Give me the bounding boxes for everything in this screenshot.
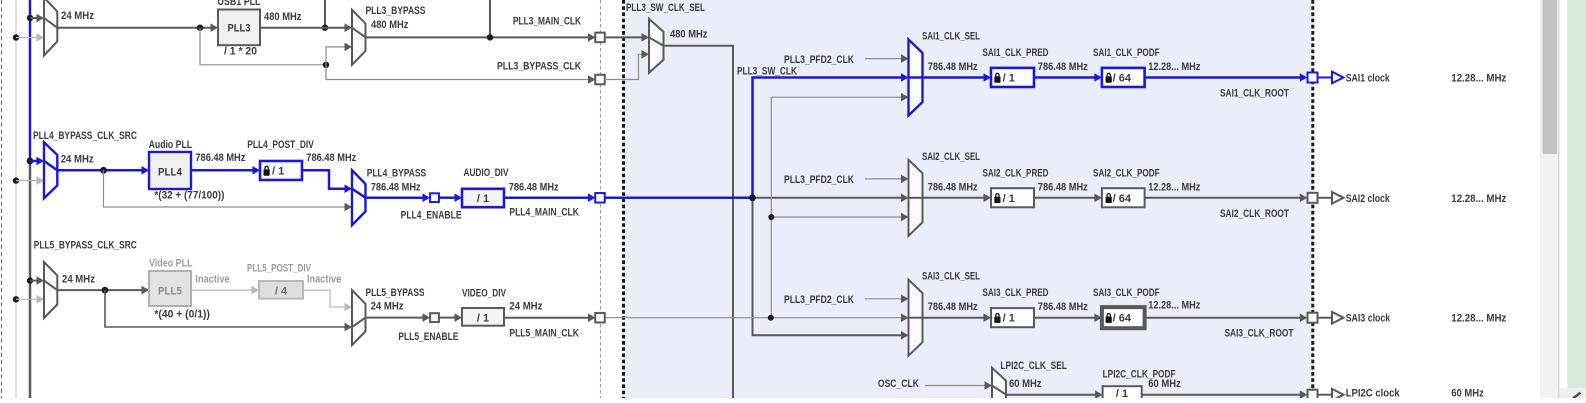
node inactive trunk branch row2: [13, 177, 19, 183]
svg-text:VIDEO_DIV: VIDEO_DIV: [462, 288, 506, 300]
svg-text:/ 1: / 1: [1003, 193, 1015, 205]
svg-text:PLL4_ENABLE: PLL4_ENABLE: [401, 210, 462, 222]
output arrow LPI2C clock: [1332, 389, 1344, 401]
divider PLL4_POST_DIV: [260, 161, 302, 180]
mux SAI2_CLK_SEL: [909, 160, 923, 236]
svg-text:12.28... MHz: 12.28... MHz: [1451, 193, 1506, 205]
svg-text:24 MHz: 24 MHz: [61, 154, 94, 166]
svg-text:12.28... MHz: 12.28... MHz: [1451, 73, 1506, 85]
svg-text:786.48 MHz: 786.48 MHz: [1038, 301, 1088, 313]
wire PLL3_BYPASS_CLK to port: [326, 65, 588, 80]
mux LPI2C_CLK_SEL: [992, 368, 1006, 403]
wire PRED to PODF SAI3: [1034, 317, 1095, 319]
mux PLL4_BYPASS: [352, 170, 366, 225]
node PLL5 input junction: [102, 287, 109, 294]
port PLL4_MAIN_CLK: [595, 193, 605, 203]
wire inactive to PLL4 src mux: [16, 180, 37, 182]
wire PLL4_BYPASS out: [366, 196, 424, 199]
svg-text:/ 1: / 1: [1003, 313, 1015, 325]
svg-text:LPI2C_CLK_SEL: LPI2C_CLK_SEL: [1000, 360, 1067, 372]
wire PLL3_PFD2_CLK to SAI1 mux: [865, 58, 901, 60]
wire PLL3 vertical to top loads: [324, 0, 326, 28]
svg-text:PLL5_POST_DIV: PLL5_POST_DIV: [247, 263, 311, 275]
wire PODF to root port SAI3: [1145, 317, 1300, 319]
wire LPI2C mux to PODF: [1006, 394, 1095, 396]
divider PLL5_POST_DIV inactive: [259, 281, 303, 299]
mux PLL5_BYPASS: [352, 290, 366, 345]
wire PODF to root port SAI2: [1145, 197, 1300, 199]
node inactive trunk branch row3: [13, 296, 19, 302]
svg-text:/ 1: / 1: [1003, 73, 1015, 85]
wire SAI3 mux to PRED: [923, 317, 985, 319]
port PLL5_ENABLE: [430, 313, 439, 322]
output arrow SAI2 clock: [1332, 192, 1344, 204]
wire SAI2 mux to PRED: [923, 197, 985, 199]
divider VIDEO_DIV: [462, 308, 504, 326]
wire PLL4 to POST_DIV: [191, 169, 253, 172]
main 24MHz trunk (blue top): [29, 0, 32, 161]
svg-text:PLL3: PLL3: [228, 23, 251, 35]
wire PLL3_MAIN_CLK tap to top: [489, 0, 491, 37]
green minimap panel: [1567, 0, 1586, 388]
svg-text:PLL3_PFD2_CLK: PLL3_PFD2_CLK: [784, 54, 854, 66]
svg-text:PLL5: PLL5: [158, 286, 182, 298]
svg-text:SAI1_CLK_ROOT: SAI1_CLK_ROOT: [1220, 88, 1289, 100]
wire POST_DIV to PLL5_BYPASS mux inactive: [303, 290, 345, 307]
node 24MHz trunk to PLL3 src: [27, 15, 33, 21]
svg-text:SAI2_CLK_SEL: SAI2_CLK_SEL: [922, 151, 980, 163]
output arrow SAI3 clock: [1332, 312, 1344, 324]
mux PLL3_BYPASS: [352, 10, 366, 65]
wire trunk to PLL3 src mux: [30, 17, 37, 19]
divider SAI1_CLK_PRED: [991, 68, 1034, 87]
main 24MHz trunk (grey bottom): [29, 161, 32, 398]
svg-text:24 MHz: 24 MHz: [371, 301, 404, 313]
wire SAI1 mux to PRED: [923, 76, 985, 79]
wire PLL4_MAIN_CLK into region (blue): [605, 197, 753, 200]
wire enable to AUDIO_DIV: [439, 196, 455, 199]
node PLL3_MAIN_CLK tap junction: [487, 34, 493, 40]
svg-text:/ 64: / 64: [1113, 193, 1132, 205]
wire PLL5 riser to SAI2: [771, 216, 901, 218]
svg-text:PLL4_MAIN_CLK: PLL4_MAIN_CLK: [509, 207, 579, 219]
svg-text:SAI1_CLK_PODF: SAI1_CLK_PODF: [1093, 47, 1160, 59]
svg-text:/ 1: / 1: [477, 313, 489, 325]
svg-text:SAI2_CLK_PODF: SAI2_CLK_PODF: [1093, 167, 1160, 179]
svg-text:Inactive: Inactive: [195, 274, 229, 286]
svg-text:PLL4_BYPASS: PLL4_BYPASS: [367, 168, 427, 180]
mux PLL5_BYPASS_CLK_SRC: [44, 262, 57, 318]
svg-text:786.48 MHz: 786.48 MHz: [928, 181, 978, 193]
svg-text:/ 64: / 64: [1113, 73, 1132, 85]
mux PLL3_SW_CLK_SEL: [649, 19, 664, 73]
divider SAI1_CLK_PODF: [1102, 68, 1145, 87]
flowchart/board dashed boundary: [600, 0, 602, 398]
wire PLL3_SW_CLK trunk: [664, 46, 734, 398]
divider SAI3_CLK_PRED: [991, 308, 1034, 327]
wire blue riser to SAI1: [753, 78, 902, 198]
wire PLL3 to bypass mux: [260, 27, 345, 29]
svg-text:PLL5_MAIN_CLK: PLL5_MAIN_CLK: [509, 328, 579, 340]
wire PODF to root port SAI1: [1145, 76, 1300, 79]
wire port to SW mux input2: [605, 54, 643, 79]
wire enable to VIDEO_DIV: [439, 317, 455, 319]
wire PLL5 bypass path (active): [105, 290, 345, 327]
svg-text:SAI3_CLK_PODF: SAI3_CLK_PODF: [1093, 287, 1160, 299]
svg-text:12.28... MHz: 12.28... MHz: [1148, 61, 1200, 73]
mux PLL4_BYPASS_CLK_SRC: [44, 142, 57, 198]
svg-text:480 MHz: 480 MHz: [264, 11, 302, 23]
svg-text:786.48 MHz: 786.48 MHz: [1038, 61, 1088, 73]
left boundary dashed line: [1, 0, 3, 398]
svg-text:/ 4: / 4: [275, 286, 288, 298]
wire PLL4 src mux out: [57, 169, 142, 172]
port SAI2_CLK_ROOT: [1308, 193, 1318, 203]
svg-text:*(32 + (77/100)): *(32 + (77/100)): [154, 190, 224, 202]
wire PRED to PODF SAI1: [1034, 76, 1095, 79]
divider SAI2_CLK_PRED: [991, 188, 1034, 207]
svg-text:/ 1: / 1: [1116, 388, 1128, 398]
svg-text:AUDIO_DIV: AUDIO_DIV: [464, 167, 509, 179]
wire PRED to PODF SAI2: [1034, 197, 1095, 199]
wire PLL4 main down to SAI3: [753, 198, 902, 335]
node PLL5 riser SAI2 branch: [768, 214, 774, 220]
divider SAI3_CLK_PODF: [1102, 307, 1145, 328]
svg-text:USB1 PLL: USB1 PLL: [218, 0, 261, 8]
scrollbar thumb: [1543, 0, 1558, 154]
svg-text:Inactive: Inactive: [307, 274, 341, 286]
svg-text:786.48 MHz: 786.48 MHz: [306, 152, 356, 164]
wire PLL3 src mux to PLL3: [57, 27, 211, 29]
wire PLL4 bypass path: [104, 170, 346, 207]
node PLL3 out top junction: [322, 25, 328, 31]
scrollbar track: [1540, 0, 1559, 398]
svg-text:/ 1: / 1: [272, 166, 284, 178]
svg-text:PLL3_SW_CLK_SEL: PLL3_SW_CLK_SEL: [626, 2, 705, 14]
svg-text:PLL4_POST_DIV: PLL4_POST_DIV: [247, 139, 314, 151]
wire PLL5 main into region: [605, 317, 902, 319]
pll Audio PLL (PLL4): [149, 152, 191, 189]
svg-text:786.48 MHz: 786.48 MHz: [509, 181, 559, 193]
exported region right dotted edge: [1311, 0, 1314, 398]
svg-text:SAI3_CLK_PRED: SAI3_CLK_PRED: [983, 287, 1049, 299]
port SAI1_CLK_ROOT: [1308, 73, 1318, 83]
wire PLL5 main riser: [771, 97, 901, 318]
wire root stub SAI3: [1318, 317, 1333, 319]
svg-text:PLL5_ENABLE: PLL5_ENABLE: [398, 331, 458, 343]
svg-text:/ 1: / 1: [477, 193, 489, 205]
svg-text:PLL5_BYPASS: PLL5_BYPASS: [366, 287, 425, 299]
svg-text:SAI1 clock: SAI1 clock: [1346, 73, 1391, 85]
svg-text:PLL3_PFD2_CLK: PLL3_PFD2_CLK: [784, 294, 854, 306]
bottom-right corner widget: [1559, 388, 1586, 398]
mux SAI3_CLK_SEL: [909, 280, 923, 356]
svg-text:Video PLL: Video PLL: [149, 258, 193, 270]
pll Video PLL (PLL5) inactive: [149, 271, 191, 306]
wire inactive to PLL5 src mux: [16, 298, 37, 300]
svg-text:SAI1_CLK_SEL: SAI1_CLK_SEL: [922, 31, 980, 43]
svg-text:SAI2 clock: SAI2 clock: [1346, 193, 1391, 205]
exported region left dotted edge: [622, 0, 625, 398]
svg-text:SAI2_CLK_ROOT: SAI2_CLK_ROOT: [1220, 208, 1289, 220]
svg-text:24 MHz: 24 MHz: [509, 301, 542, 313]
svg-text:786.48 MHz: 786.48 MHz: [928, 61, 978, 73]
wire PLL3_PFD2_CLK to SAI3 mux: [865, 298, 901, 300]
side gap: [1559, 0, 1566, 398]
wire POST_DIV to PLL4_BYPASS mux: [302, 170, 345, 188]
wire bypass up to PLL3_BYPASS mux: [326, 47, 345, 65]
svg-text:24 MHz: 24 MHz: [62, 274, 95, 286]
wire trunk to PLL5 src mux: [30, 280, 37, 282]
svg-text:*(40 + (0/1)): *(40 + (0/1)): [154, 309, 210, 321]
wire PLL3 bypass drop: [200, 28, 326, 65]
wire PLL3_PFD2_CLK to SAI2 mux: [865, 178, 901, 180]
wire AUDIO_DIV to port: [504, 196, 588, 199]
svg-text:60 MHz: 60 MHz: [1148, 378, 1181, 390]
port PLL5_MAIN_CLK: [595, 313, 605, 323]
wire LPI2C root stub: [1318, 394, 1333, 396]
node PLL4 input junction: [100, 167, 107, 174]
divider AUDIO_DIV: [462, 189, 504, 207]
port LPI2C_CLK_ROOT: [1308, 390, 1318, 400]
svg-text:SAI3_CLK_ROOT: SAI3_CLK_ROOT: [1225, 328, 1294, 340]
inactive source trunk: [15, 0, 17, 398]
svg-text:/ 64: / 64: [1113, 313, 1132, 325]
svg-text:PLL3_MAIN_CLK: PLL3_MAIN_CLK: [513, 16, 581, 28]
svg-text:OSC_CLK: OSC_CLK: [878, 378, 919, 390]
svg-text:786.48 MHz: 786.48 MHz: [371, 181, 421, 193]
wire PLL5_BYPASS out: [366, 317, 424, 319]
mux PLL3 bypass clk src: [44, 0, 57, 56]
svg-text:480 MHz: 480 MHz: [371, 19, 409, 31]
svg-text:480 MHz: 480 MHz: [670, 29, 708, 41]
wire PLL4 main to SAI2: [753, 197, 902, 199]
svg-text:PLL3_SW_CLK: PLL3_SW_CLK: [737, 66, 797, 78]
output arrow SAI1 clock: [1332, 72, 1344, 84]
svg-text:60 MHz: 60 MHz: [1009, 378, 1042, 390]
svg-text:PLL3_PFD2_CLK: PLL3_PFD2_CLK: [784, 174, 854, 186]
wire PLL5 to POST_DIV inactive: [191, 289, 252, 291]
port PLL3_BYPASS_CLK: [595, 75, 605, 85]
wire root stub SAI2: [1318, 197, 1333, 199]
node trunk to PLL5 src: [27, 277, 33, 283]
wire inactive to PLL3 src mux: [16, 37, 37, 39]
svg-text:LPI2C clock: LPI2C clock: [1346, 388, 1401, 399]
node PLL5 riser base: [768, 315, 774, 321]
svg-text:PLL3_BYPASS_CLK: PLL3_BYPASS_CLK: [497, 61, 581, 73]
node PLL3 input junction: [197, 25, 203, 31]
svg-text:12.28... MHz: 12.28... MHz: [1148, 181, 1200, 193]
wire PLL5 src mux out: [57, 289, 142, 291]
svg-text:SAI1_CLK_PRED: SAI1_CLK_PRED: [983, 47, 1049, 59]
wire PLL3_MAIN_CLK to port: [366, 36, 589, 38]
svg-text:60 MHz: 60 MHz: [1451, 388, 1484, 399]
port PLL4_ENABLE: [430, 193, 439, 202]
port SAI3_CLK_ROOT: [1308, 313, 1318, 323]
wire PODF to LPI2C root port: [1142, 394, 1300, 396]
divider LPI2C_CLK_PODF: [1103, 386, 1142, 403]
svg-text:786.48 MHz: 786.48 MHz: [1038, 181, 1088, 193]
svg-text:/ 1 * 20: / 1 * 20: [224, 46, 257, 58]
svg-text:PLL4: PLL4: [158, 167, 183, 179]
divider SAI2_CLK_PODF: [1102, 188, 1145, 207]
wire VIDEO_DIV to port: [504, 317, 588, 319]
svg-text:PLL3_BYPASS: PLL3_BYPASS: [366, 5, 426, 17]
svg-text:PLL5_BYPASS_CLK_SRC: PLL5_BYPASS_CLK_SRC: [34, 240, 137, 252]
wire trunk to PLL4 src mux: [30, 160, 37, 163]
svg-text:SAI3 clock: SAI3 clock: [1346, 313, 1391, 325]
svg-text:PLL4_BYPASS_CLK_SRC: PLL4_BYPASS_CLK_SRC: [33, 130, 137, 142]
node inactive trunk branch row1: [13, 34, 19, 40]
pll USB1 PLL (PLL3): [218, 10, 260, 46]
svg-text:24 MHz: 24 MHz: [61, 10, 94, 22]
node trunk to PLL4 src: [27, 158, 34, 165]
mux SAI1_CLK_SEL: [909, 40, 923, 116]
svg-text:Audio PLL: Audio PLL: [149, 139, 193, 151]
svg-text:SAI2_CLK_PRED: SAI2_CLK_PRED: [983, 167, 1049, 179]
svg-text:786.48 MHz: 786.48 MHz: [928, 301, 978, 313]
node PLL4 main junction: [749, 194, 756, 201]
svg-text:SAI3_CLK_SEL: SAI3_CLK_SEL: [922, 271, 980, 283]
svg-text:786.48 MHz: 786.48 MHz: [195, 152, 245, 164]
exported clocks region background: [625, 0, 1313, 398]
node bypass junction: [323, 62, 329, 68]
wire root stub SAI1: [1318, 77, 1333, 79]
svg-text:12.28... MHz: 12.28... MHz: [1451, 313, 1506, 325]
wire port to SW mux input1: [605, 36, 643, 38]
port PLL3_MAIN_CLK: [595, 33, 605, 43]
wire OSC_CLK to LPI2C mux: [925, 385, 985, 387]
svg-text:12.28... MHz: 12.28... MHz: [1148, 300, 1200, 312]
